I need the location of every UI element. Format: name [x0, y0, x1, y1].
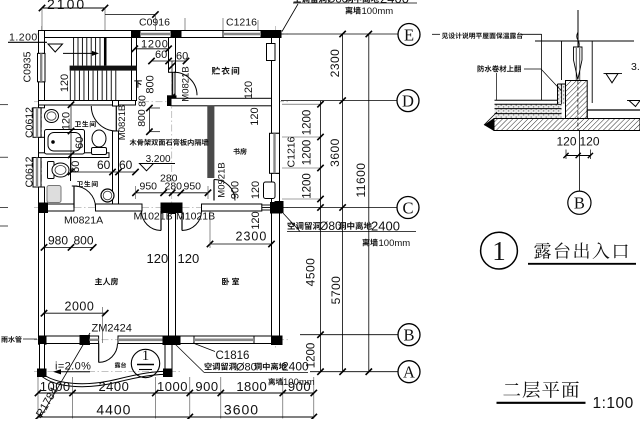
svg-text:1: 1	[142, 348, 150, 364]
svg-text:800: 800	[74, 234, 94, 248]
svg-text:950: 950	[140, 181, 158, 193]
svg-text:60: 60	[74, 137, 86, 149]
svg-text:120: 120	[147, 251, 169, 266]
svg-text:ZM2424: ZM2424	[92, 323, 132, 335]
svg-text:5700: 5700	[329, 276, 343, 305]
svg-text:E: E	[404, 26, 414, 45]
svg-text:2300: 2300	[236, 230, 268, 244]
svg-text:C0916: C0916	[139, 17, 170, 29]
svg-text:100mm: 100mm	[283, 377, 315, 388]
svg-text:1000: 1000	[157, 379, 188, 394]
svg-text:C1816: C1816	[216, 350, 250, 362]
svg-text:M1021B: M1021B	[176, 211, 215, 223]
svg-text:B: B	[403, 326, 414, 345]
svg-text:C0935: C0935	[22, 51, 34, 82]
svg-text:800: 800	[136, 109, 148, 127]
svg-text:800: 800	[145, 75, 157, 93]
svg-text:2400: 2400	[282, 360, 309, 374]
svg-text:120: 120	[250, 181, 262, 199]
svg-text:3.2: 3.2	[631, 61, 640, 73]
svg-text:1000: 1000	[40, 379, 71, 394]
svg-text:M0821B: M0821B	[180, 66, 191, 101]
svg-text:Ø80: Ø80	[236, 362, 257, 374]
svg-text:120: 120	[59, 74, 71, 92]
svg-text:C0612: C0612	[24, 156, 36, 187]
svg-text:2300: 2300	[328, 49, 342, 78]
svg-text:2000: 2000	[65, 300, 95, 314]
svg-text:950: 950	[184, 181, 202, 193]
svg-text:1:100: 1:100	[593, 395, 634, 412]
svg-text:60: 60	[155, 49, 167, 61]
svg-text:120: 120	[178, 251, 200, 266]
svg-text:2100: 2100	[47, 0, 86, 12]
svg-text:A: A	[403, 363, 415, 382]
svg-text:4400: 4400	[96, 402, 131, 418]
svg-text:Ø80: Ø80	[319, 219, 342, 233]
svg-text:3600: 3600	[328, 138, 342, 167]
svg-text:C: C	[402, 199, 413, 218]
svg-text:80: 80	[137, 95, 149, 107]
svg-text:120: 120	[580, 135, 600, 149]
svg-text:120: 120	[243, 81, 255, 99]
svg-text:1.200: 1.200	[9, 32, 38, 44]
svg-text:60: 60	[97, 158, 111, 172]
svg-text:11600: 11600	[354, 163, 368, 198]
svg-text:C0612: C0612	[24, 107, 36, 138]
svg-text:C1216: C1216	[226, 17, 257, 29]
svg-text:120: 120	[250, 211, 262, 229]
svg-text:120: 120	[249, 107, 261, 125]
svg-text:100mm: 100mm	[362, 6, 394, 17]
svg-text:1800: 1800	[236, 379, 267, 394]
svg-text:100mm: 100mm	[379, 238, 411, 249]
svg-text:M0821B: M0821B	[117, 105, 128, 140]
svg-text:1200: 1200	[302, 110, 314, 136]
svg-text:D: D	[402, 92, 414, 111]
svg-text:1200: 1200	[302, 140, 314, 166]
svg-text:120: 120	[557, 135, 577, 149]
svg-text:4500: 4500	[304, 258, 318, 287]
svg-text:2400: 2400	[380, 0, 409, 6]
svg-text:1: 1	[492, 236, 506, 266]
svg-text:M0821A: M0821A	[64, 215, 103, 227]
svg-text:900: 900	[195, 379, 218, 394]
svg-text:Ø80: Ø80	[327, 0, 348, 6]
svg-text:C1216: C1216	[286, 136, 298, 167]
svg-text:2400: 2400	[98, 379, 129, 394]
svg-text:1200: 1200	[302, 173, 314, 199]
svg-text:3600: 3600	[224, 402, 259, 418]
svg-text:900: 900	[230, 181, 242, 199]
svg-text:M1021B: M1021B	[134, 211, 173, 223]
svg-text:B: B	[574, 194, 585, 213]
svg-text:980: 980	[48, 234, 68, 248]
svg-text:M0921B: M0921B	[217, 162, 228, 197]
